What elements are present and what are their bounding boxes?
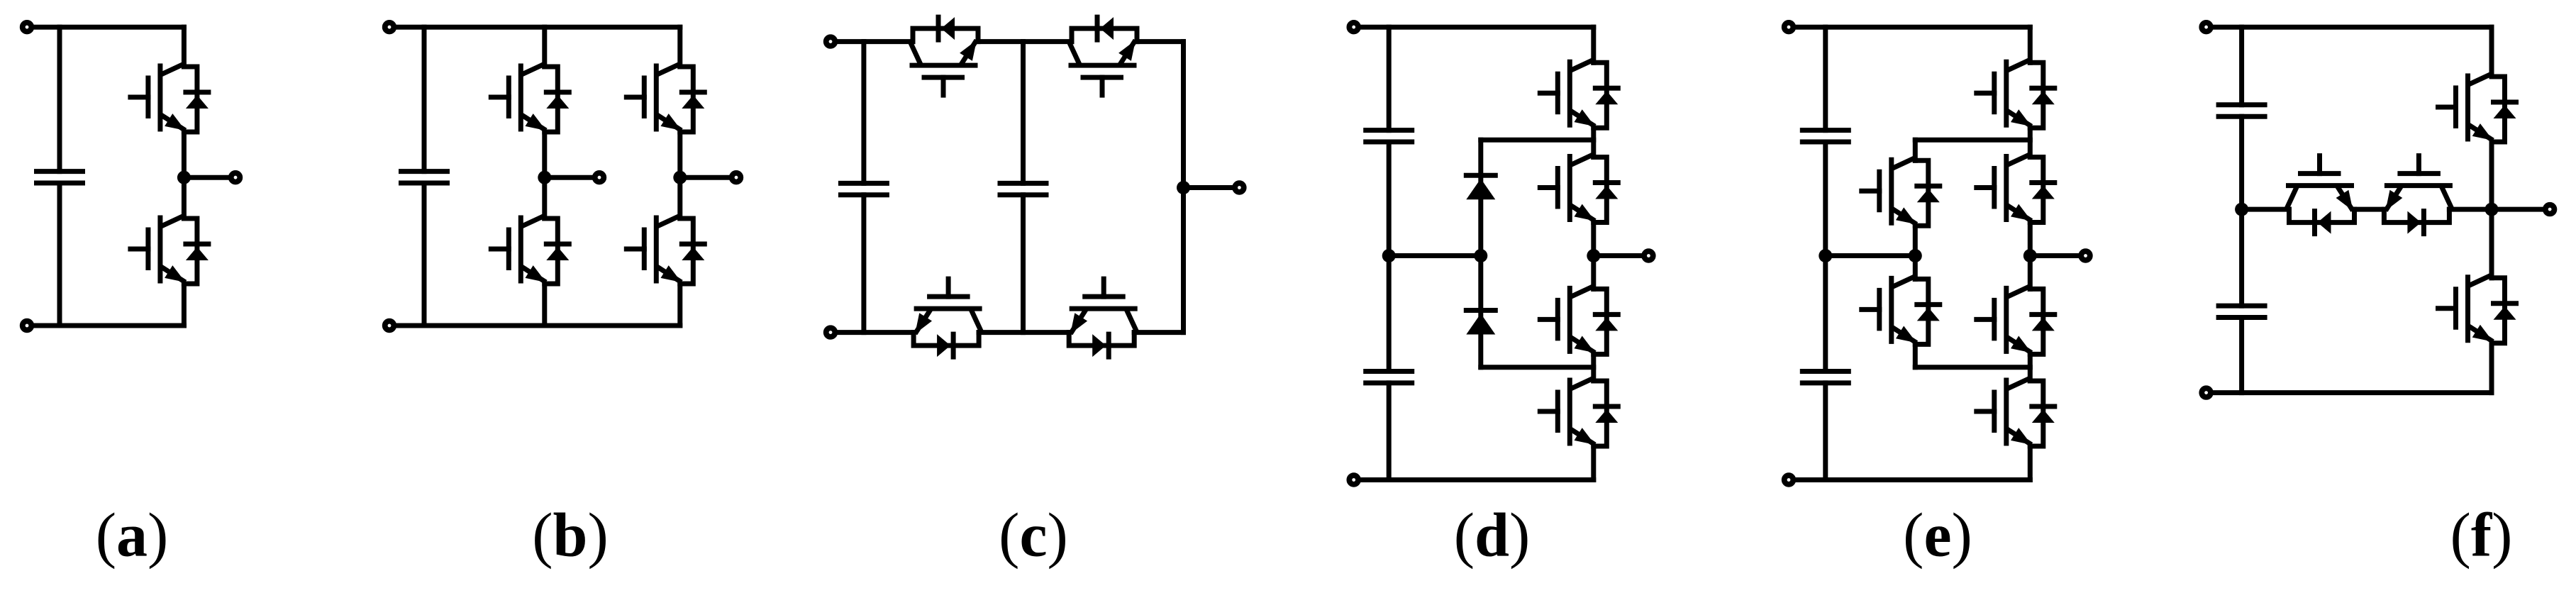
terminal DC+ (d): [1349, 23, 1358, 32]
wire capacitor C2 lower lead (c): [1021, 195, 1026, 333]
IGBT S2 horizontal with antiparallel diode (c): [1070, 17, 1137, 95]
wire clamp upper horizontal (e): [1915, 138, 2030, 143]
svg-text:(c): (c): [999, 501, 1068, 570]
wire bottom rail segment 3 (c): [1134, 330, 1183, 335]
wire S4 collector to node (f): [2449, 207, 2492, 212]
node output junction (f): [2485, 203, 2499, 216]
capacitor C2 (f): [2219, 306, 2265, 317]
wire neutral link (e): [1826, 253, 1916, 258]
node clamp junction (d): [1474, 249, 1487, 262]
wire top rail (b): [389, 25, 680, 30]
wire bottom rail segment 2 (c): [979, 330, 1069, 335]
terminal DC- (f): [2202, 388, 2211, 397]
wire capacitor lower lead (a): [57, 183, 62, 326]
wire leg2 emitter down (b): [677, 284, 682, 326]
node dc-link midpoint (d): [1382, 249, 1396, 262]
wire top rail (d): [1354, 25, 1594, 30]
wire clamp branch middle (e): [1913, 226, 1918, 279]
wire S1 emitter to node (a): [182, 132, 187, 177]
wire top rail segment 3 (c): [1137, 39, 1184, 44]
IGBT S1 with antiparallel diode (e): [1977, 60, 2055, 128]
wire bottom rail (e): [1789, 477, 2030, 482]
terminal DC- (e): [1784, 475, 1794, 484]
wire capacitor C1 upper lead (d): [1387, 27, 1392, 130]
IGBT S1 with antiparallel diode (d): [1540, 60, 1618, 128]
wire clamp branch lower (e): [1913, 344, 1918, 367]
IGBT S3 with antiparallel diode (b): [626, 65, 704, 132]
node dc-link midpoint (e): [1819, 249, 1832, 262]
IGBT S1 horizontal with antiparallel diode (c): [911, 17, 978, 95]
wire top rail (f): [2206, 25, 2492, 30]
wire clamp upper horizontal (d): [1481, 138, 1594, 143]
wire output lead (d): [1594, 253, 1649, 258]
wire S2 emitter down (a): [182, 284, 187, 326]
wire capacitor C1 upper lead (e): [1823, 27, 1828, 130]
capacitor C2 (d): [1366, 372, 1412, 383]
terminal DC+ (a): [23, 23, 32, 32]
wire capacitor C1 lower lead (f): [2239, 116, 2244, 209]
wire common emitter link (f): [2355, 207, 2385, 212]
wire leg1 midpoint (b): [542, 132, 547, 218]
node clamp junction (e): [1909, 249, 1922, 262]
terminal DC- (b): [385, 321, 394, 331]
IGBT S3 horizontal with antiparallel diode (f): [2287, 156, 2355, 234]
svg-text:(e): (e): [1903, 501, 1972, 570]
terminal AC output 1 (b): [595, 173, 604, 182]
terminal DC+ (f): [2202, 23, 2211, 32]
wire S3-S4 link (d): [1591, 354, 1596, 381]
svg-text:(b): (b): [532, 501, 609, 570]
capacitor C1 (e): [1802, 131, 1848, 142]
wire S1 emitter to node (f): [2489, 142, 2494, 209]
capacitor C1 (c): [840, 183, 887, 194]
wire output lead 1 (b): [545, 175, 599, 180]
terminal DC- (d): [1349, 475, 1358, 484]
wire capacitor C2 lower lead (e): [1823, 383, 1828, 480]
wire S1 collector (d): [1591, 27, 1596, 62]
IGBT S2 with antiparallel diode (d): [1540, 155, 1618, 223]
terminal AC output 2 (b): [732, 173, 741, 182]
wire S1 collector (a): [182, 27, 187, 67]
wire S1-S2 link (d): [1591, 128, 1596, 157]
wire dc-link middle (e): [1823, 142, 1828, 372]
wire capacitor C2 lower lead (d): [1387, 383, 1392, 480]
terminal DC+ (e): [1784, 23, 1794, 32]
IGBT S4 with antiparallel diode (b): [626, 216, 704, 284]
wire top rail (e): [1789, 25, 2030, 30]
capacitor C1 (f): [2219, 105, 2265, 116]
capacitor C1 (b): [401, 172, 448, 183]
IGBT S2 with antiparallel diode (a): [131, 216, 209, 284]
node leg2 midpoint (b): [673, 171, 687, 184]
wire dc-link middle (d): [1387, 142, 1392, 372]
capacitor C2 (e): [1802, 372, 1848, 383]
wire output lead 2 (b): [680, 175, 736, 180]
wire S4 emitter down (e): [2028, 446, 2033, 480]
IGBT S6 clamp with antiparallel diode (e): [1862, 277, 1940, 344]
wire bottom rail (f): [2206, 390, 2492, 395]
wire S1 collector (f): [2489, 27, 2494, 77]
IGBT S4 with antiparallel diode (d): [1540, 379, 1618, 446]
wire capacitor C1 upper lead (f): [2239, 27, 2244, 105]
wire top rail segment 2 (c): [978, 39, 1072, 44]
wire capacitor upper lead (b): [422, 27, 427, 171]
wire bottom rail segment 1 (c): [831, 330, 914, 335]
terminal DC+ (c): [826, 37, 835, 46]
capacitor C1 (a): [37, 172, 83, 183]
IGBT S2 with antiparallel diode (b): [491, 216, 569, 284]
wire capacitor C1 upper lead (c): [861, 42, 866, 184]
wire node to S2 collector (f): [2489, 209, 2494, 278]
wire capacitor lower lead (b): [422, 183, 427, 326]
IGBT S1 with antiparallel diode (a): [131, 65, 209, 132]
wire S4 emitter down (d): [1591, 446, 1596, 480]
wire output lead (a): [184, 175, 235, 180]
capacitor C2 flying (c): [1000, 183, 1046, 194]
diode D1 clamp (d): [1466, 175, 1495, 199]
IGBT S5 clamp with antiparallel diode (e): [1862, 158, 1940, 226]
wire clamp lower horizontal (d): [1481, 365, 1594, 370]
svg-text:(a): (a): [96, 501, 169, 570]
capacitor C1 (d): [1366, 131, 1412, 142]
terminal AC output (a): [231, 173, 240, 182]
IGBT S3 with antiparallel diode (d): [1540, 287, 1618, 354]
wire capacitor C1 lower lead (c): [861, 195, 866, 333]
wire leg1 collector (b): [542, 27, 547, 67]
node leg1 midpoint (b): [538, 171, 551, 184]
wire bottom rail (a): [27, 323, 184, 328]
svg-text:(f): (f): [2450, 501, 2513, 570]
wire neutral link (d): [1389, 253, 1481, 258]
IGBT S4 horizontal with antiparallel diode (c): [1069, 279, 1136, 357]
diode D2 clamp (d): [1466, 311, 1495, 335]
wire output lead (e): [2030, 253, 2085, 258]
wire S2 emitter down (f): [2489, 343, 2494, 393]
node output junction (e): [2023, 249, 2037, 262]
wire top rail (a): [27, 25, 184, 30]
node output junction (c): [1177, 181, 1190, 194]
node dc-link midpoint (f): [2235, 203, 2248, 216]
terminal DC- (a): [23, 321, 32, 331]
wire capacitor upper lead (a): [57, 27, 62, 171]
wire clamp branch vertical (d): [1478, 140, 1483, 367]
svg-text:(d): (d): [1454, 501, 1531, 570]
wire clamp lower horizontal (e): [1915, 365, 2030, 370]
wire right leg (c): [1181, 42, 1186, 333]
IGBT S2 with antiparallel diode (f): [2438, 276, 2516, 343]
IGBT S4 horizontal with antiparallel diode (f): [2384, 156, 2451, 234]
wire bottom rail (b): [389, 323, 680, 328]
wire output lead (c): [1184, 185, 1240, 190]
terminal AC output (e): [2081, 251, 2090, 260]
wire top rail segment 1 (c): [831, 39, 913, 44]
wire node to S2 collector (a): [182, 177, 187, 218]
wire S1 collector (e): [2028, 27, 2033, 62]
wire capacitor C2 lower lead (f): [2239, 318, 2244, 393]
wire S2-S3 link (e): [2028, 223, 2033, 289]
wire clamp branch upper (e): [1913, 140, 1918, 160]
IGBT S3 horizontal with antiparallel diode (c): [914, 279, 981, 357]
wire leg2 collector (b): [677, 27, 682, 67]
terminal DC- (c): [826, 328, 835, 337]
terminal AC output (c): [1235, 183, 1244, 192]
IGBT S1 with antiparallel diode (f): [2438, 74, 2516, 142]
wire leg2 midpoint (b): [677, 132, 682, 218]
node midpoint junction (a): [177, 171, 191, 184]
terminal DC+ (b): [385, 23, 394, 32]
IGBT S2 with antiparallel diode (e): [1977, 155, 2055, 223]
terminal AC output (f): [2546, 205, 2555, 214]
node output junction (d): [1587, 249, 1600, 262]
IGBT S1 with antiparallel diode (b): [491, 65, 569, 132]
wire S2-S3 link (d): [1591, 223, 1596, 289]
wire output lead (f): [2492, 207, 2550, 212]
wire capacitor C2 upper lead (f): [2239, 209, 2244, 306]
wire neutral link (f): [2242, 207, 2289, 212]
wire capacitor C2 upper lead (c): [1021, 42, 1026, 184]
IGBT S4 with antiparallel diode (e): [1977, 379, 2055, 446]
wire bottom rail (d): [1354, 477, 1594, 482]
wire S1-S2 link (e): [2028, 128, 2033, 157]
wire leg1 emitter down (b): [542, 284, 547, 326]
IGBT S3 with antiparallel diode (e): [1977, 287, 2055, 354]
terminal AC output (d): [1644, 251, 1653, 260]
wire S3-S4 link (e): [2028, 354, 2033, 381]
